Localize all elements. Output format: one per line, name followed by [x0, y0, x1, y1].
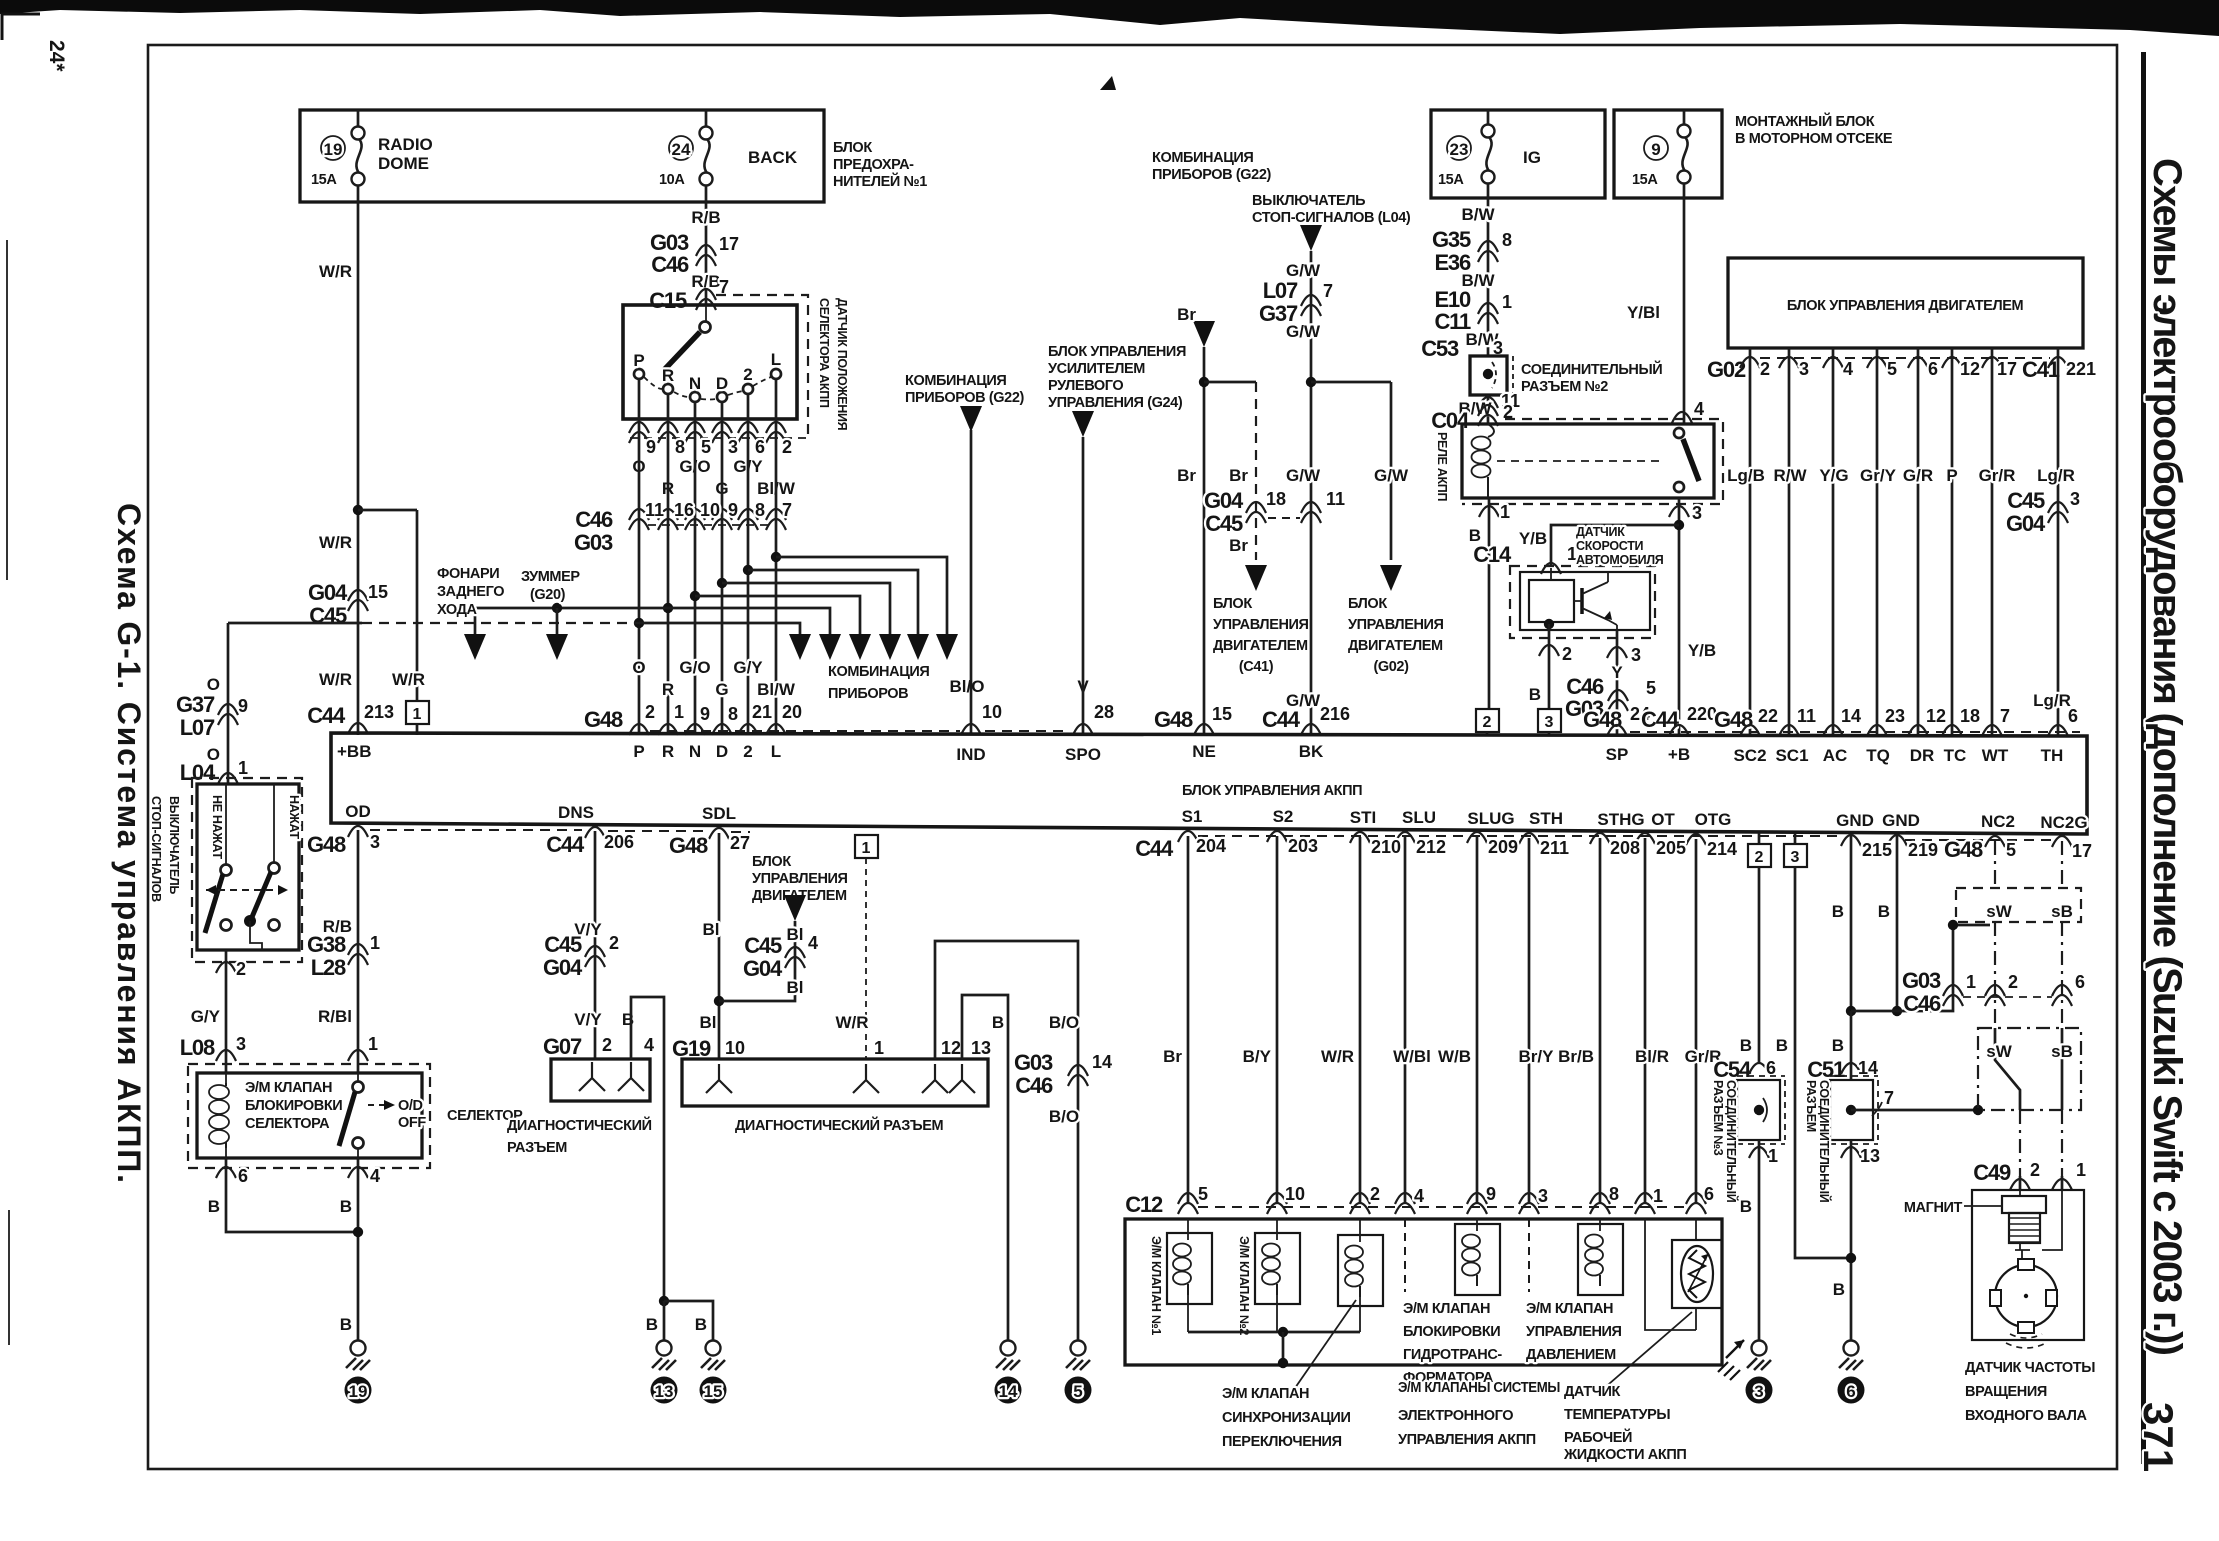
- svg-text:B: B: [1832, 902, 1844, 921]
- label selector position sensor: [817, 298, 849, 431]
- svg-text:OTG: OTG: [1695, 810, 1732, 829]
- svg-text:ПЕРЕКЛЮЧЕНИЯ: ПЕРЕКЛЮЧЕНИЯ: [1222, 1434, 1342, 1450]
- svg-text:8: 8: [728, 704, 738, 724]
- svg-text:210: 210: [1371, 837, 1401, 857]
- svg-text:11: 11: [645, 500, 664, 520]
- wire B GND215 to drain joint: [1832, 834, 1856, 1016]
- wire O from dashed line down to L04 switch: [207, 623, 228, 784]
- svg-text:213: 213: [364, 702, 394, 722]
- svg-text:C46: C46: [575, 507, 613, 532]
- solenoid valve 3 shift synchronization: [1338, 1219, 1383, 1332]
- svg-text:W/R: W/R: [1321, 1047, 1354, 1066]
- svg-text:Э/М КЛАПАН: Э/М КЛАПАН: [1403, 1301, 1490, 1317]
- svg-text:C45: C45: [2007, 488, 2045, 513]
- svg-text:1: 1: [1966, 972, 1976, 992]
- svg-text:NC2: NC2: [1981, 812, 2015, 831]
- box connector 2 below bus: [1748, 833, 1771, 867]
- svg-text:G37: G37: [176, 692, 215, 717]
- svg-text:O/D: O/D: [398, 1098, 423, 1114]
- svg-text:Э/М КЛАПАН: Э/М КЛАПАН: [1526, 1301, 1613, 1317]
- svg-text:W/B: W/B: [1438, 1047, 1471, 1066]
- svg-text:2: 2: [1760, 359, 1770, 379]
- svg-text:G04: G04: [743, 956, 783, 981]
- svg-text:B: B: [992, 1013, 1004, 1032]
- svg-text:IND: IND: [956, 745, 985, 764]
- box connector 2 above bus: [1476, 709, 1499, 736]
- junction dot B: [353, 1227, 363, 1237]
- svg-text:1: 1: [1653, 1186, 1663, 1206]
- svg-text:11: 11: [1326, 489, 1345, 509]
- svg-text:17: 17: [719, 234, 739, 254]
- svg-text:C44: C44: [546, 832, 585, 857]
- svg-text:Э/М КЛАПАН: Э/М КЛАПАН: [245, 1080, 332, 1096]
- svg-text:R/Bl: R/Bl: [318, 1007, 352, 1026]
- arrows to combination meter: [789, 634, 958, 660]
- svg-text:Схемы электрооборудования (доп: Схемы электрооборудования (дополнение (S…: [2145, 158, 2189, 1356]
- svg-text:DNS: DNS: [558, 803, 594, 822]
- wire V/Y DNS chain to G07 pin 2: [543, 831, 619, 1059]
- selector contacts P R N D 2 L: [633, 350, 781, 402]
- wire B/O G19 pin 12 to ground 5: [935, 941, 1112, 1340]
- wire stub fuse 19: [357, 110, 360, 202]
- svg-text:2: 2: [743, 742, 752, 761]
- joint connector C51: [1804, 1011, 1878, 1203]
- svg-text:B: B: [646, 1315, 658, 1334]
- svg-text:208: 208: [1610, 838, 1640, 858]
- connector G02/C41 row: [1707, 348, 2096, 736]
- svg-text:B: B: [340, 1315, 352, 1334]
- svg-text:C15: C15: [649, 288, 687, 313]
- svg-text:B: B: [1832, 1036, 1844, 1055]
- svg-text:15A: 15A: [311, 172, 337, 188]
- svg-text:6: 6: [1704, 1184, 1714, 1204]
- svg-text:СТОП-СИГНАЛОВ: СТОП-СИГНАЛОВ: [149, 796, 163, 902]
- svg-text:27: 27: [730, 833, 750, 853]
- junction W/R branch: [353, 505, 363, 515]
- svg-text:C44: C44: [1135, 836, 1174, 861]
- svg-text:STH: STH: [1529, 809, 1563, 828]
- wire W/R from fuse 19 down to C44-213: [319, 202, 358, 735]
- wire R/B OD chain: G48-3 down to L08 pin1: [307, 830, 380, 1073]
- svg-text:R/W: R/W: [1773, 466, 1807, 485]
- svg-text:8: 8: [1609, 1184, 1619, 1204]
- svg-text:G35: G35: [1432, 227, 1471, 252]
- svg-text:ПРИБОРОВ: ПРИБОРОВ: [828, 686, 908, 702]
- svg-text:204: 204: [1196, 836, 1226, 856]
- svg-text:R/B: R/B: [691, 208, 720, 227]
- svg-text:B: B: [695, 1315, 707, 1334]
- wire B/Y S2: [1243, 836, 1277, 1203]
- connector C12 row: [1125, 1184, 1714, 1217]
- chassis arrow at solenoid box corner: [1718, 1340, 1744, 1380]
- diagnostic connector 1 box G07: [551, 1059, 650, 1101]
- svg-text:W/R: W/R: [319, 670, 352, 689]
- svg-text:G04: G04: [2006, 511, 2046, 536]
- svg-text:10A: 10A: [659, 172, 685, 188]
- label combination meter: [828, 664, 929, 702]
- wire Br NE: [1177, 305, 1214, 735]
- svg-text:ДИАГНОСТИЧЕСКИЙ: ДИАГНОСТИЧЕСКИЙ: [507, 1116, 652, 1134]
- svg-text:6: 6: [1766, 1058, 1776, 1078]
- svg-text:Y: Y: [1611, 663, 1623, 682]
- relay pin 3 wire to +B: [1669, 498, 1716, 736]
- svg-text:10: 10: [725, 1038, 745, 1058]
- svg-text:TH: TH: [2041, 746, 2064, 765]
- junction NE to Br branch: [1199, 377, 1256, 387]
- wire color labels row lower: [632, 658, 1089, 699]
- label relay: [1435, 432, 1449, 501]
- svg-text:БЛОКИРОВКИ: БЛОКИРОВКИ: [1403, 1324, 1500, 1340]
- svg-text:17: 17: [2072, 841, 2092, 861]
- fuse 9 15A: [1632, 125, 1691, 189]
- svg-text:ПРЕДОХРА-: ПРЕДОХРА-: [833, 157, 914, 173]
- wire Bl/O IND: [961, 430, 1070, 735]
- svg-text:Br/B: Br/B: [1558, 1047, 1594, 1066]
- svg-text:W/R: W/R: [835, 1013, 868, 1032]
- fuse box 1: [300, 110, 824, 202]
- wire G/Y from L04 pin 2 to L08: [191, 950, 246, 1073]
- svg-text:ДАТЧИК: ДАТЧИК: [1564, 1384, 1621, 1400]
- svg-text:215: 215: [1862, 840, 1892, 860]
- svg-text:SDL: SDL: [702, 804, 736, 823]
- svg-text:G48: G48: [307, 832, 346, 857]
- svg-text:19: 19: [349, 1382, 368, 1401]
- arrow from stop lamp switch L04 to BK: [1252, 193, 1411, 251]
- svg-text:КОМБИНАЦИЯ: КОМБИНАЦИЯ: [905, 373, 1006, 389]
- svg-text:21: 21: [752, 702, 772, 722]
- svg-text:G04: G04: [1204, 488, 1244, 513]
- staircase line from D wire to arrow 4: [717, 578, 890, 634]
- scan artifact: corner bracket top-left: [2, 14, 40, 40]
- connector C45/G04 pin 3 on TH wire: [2006, 488, 2080, 536]
- label speed sensor: [1576, 525, 1664, 567]
- svg-text:5: 5: [1887, 359, 1897, 379]
- wire stub fuse 23: [1487, 110, 1490, 198]
- wire Bl SDL chain to G19 pin 10: [672, 833, 745, 1061]
- bus pins SC2..TH: [1630, 706, 2080, 736]
- svg-text:12: 12: [1960, 359, 1980, 379]
- svg-text:G48: G48: [1944, 837, 1983, 862]
- svg-text:РАЗЪЕМ: РАЗЪЕМ: [1804, 1080, 1818, 1132]
- svg-text:(G02): (G02): [1373, 659, 1409, 675]
- svg-text:2: 2: [1755, 849, 1764, 866]
- svg-text:12: 12: [1926, 706, 1946, 726]
- solenoid valve 4 TCC lockup: [1405, 1219, 1500, 1295]
- svg-text:G/Y: G/Y: [191, 1007, 221, 1026]
- svg-text:G48: G48: [584, 707, 623, 732]
- solenoid block box: [1125, 1219, 1722, 1365]
- svg-text:4: 4: [1694, 399, 1704, 419]
- wire B G19 pin 13 to ground 14: [941, 995, 1008, 1340]
- svg-text:209: 209: [1488, 837, 1518, 857]
- relay C04 dashed outline: [1462, 419, 1723, 504]
- stop signal switch L04: [149, 778, 302, 962]
- connector G04/C45 pin 15: [308, 580, 388, 628]
- connector C15 pins 9 8 5 3 6 2: [629, 422, 808, 457]
- svg-text:7: 7: [2000, 706, 2010, 726]
- svg-text:G04: G04: [543, 955, 583, 980]
- svg-text:24: 24: [672, 140, 691, 159]
- wire Bl from engine control to SDL junction: [719, 921, 818, 1001]
- svg-text:211: 211: [1540, 838, 1569, 858]
- solenoid valve 1: [1149, 1219, 1212, 1335]
- svg-text:Bl: Bl: [703, 920, 720, 939]
- svg-text:B/O: B/O: [1049, 1107, 1079, 1126]
- svg-text:Lg/R: Lg/R: [2033, 691, 2071, 710]
- arrow to reverse lamps: [437, 566, 504, 660]
- engine control unit box: [1728, 258, 2083, 348]
- svg-text:SLUG: SLUG: [1467, 809, 1514, 828]
- speed sensor pin 3 wire Y to SP: [1565, 630, 1656, 736]
- svg-text:2: 2: [645, 702, 655, 722]
- fuse 19 RADIO DOME 15A: [311, 127, 433, 189]
- svg-text:14: 14: [1841, 706, 1861, 726]
- wire Br branch to engine control C41: [1204, 382, 1300, 591]
- fuse box 2: [1431, 110, 1605, 198]
- wire B from box connector 3 to C51 bottom: [1776, 867, 1851, 1258]
- wire color labels row upper: [632, 457, 795, 498]
- speed sensor element: [1529, 568, 1574, 622]
- svg-text:371: 371: [2135, 1402, 2182, 1472]
- svg-text:15: 15: [368, 582, 388, 602]
- relay dashed link: [1497, 460, 1665, 462]
- label input shaft speed sensor: [1965, 1360, 2095, 1424]
- wire Y/Bl from fuse 9 to relay pin 4: [1627, 198, 1704, 424]
- svg-text:В МОТОРНОМ ОТСЕКЕ: В МОТОРНОМ ОТСЕКЕ: [1735, 131, 1893, 147]
- svg-text:(G20): (G20): [530, 587, 566, 603]
- svg-text:Y/B: Y/B: [1519, 529, 1547, 548]
- wire B from pin6 to junction: [226, 1158, 358, 1232]
- svg-text:1: 1: [370, 933, 380, 953]
- svg-text:5: 5: [2006, 840, 2016, 860]
- svg-text:РАЗЪЕМ №3: РАЗЪЕМ №3: [1711, 1080, 1725, 1156]
- svg-text:РАЗЪЕМ №2: РАЗЪЕМ №2: [1521, 379, 1608, 395]
- svg-text:Y/B: Y/B: [1688, 641, 1716, 660]
- svg-text:11: 11: [1797, 706, 1816, 726]
- svg-text:G48: G48: [669, 833, 708, 858]
- svg-text:C44: C44: [1262, 707, 1301, 732]
- svg-text:Br: Br: [1177, 466, 1196, 485]
- bus pin labels NE BK: [1154, 704, 1350, 732]
- svg-text:НИТЕЛЕЙ №1: НИТЕЛЕЙ №1: [833, 172, 927, 190]
- svg-text:TQ: TQ: [1866, 746, 1890, 765]
- svg-text:219: 219: [1908, 840, 1938, 860]
- input shaft speed sensor C49: [1972, 1160, 2086, 1348]
- svg-text:ДВИГАТЕЛЕМ: ДВИГАТЕЛЕМ: [1348, 638, 1443, 654]
- svg-text:ЭЛЕКТРОННОГО: ЭЛЕКТРОННОГО: [1398, 1408, 1513, 1424]
- svg-text:ЖИДКОСТИ АКПП: ЖИДКОСТИ АКПП: [1563, 1447, 1686, 1463]
- svg-text:4: 4: [1414, 1186, 1424, 1206]
- svg-text:C14: C14: [1473, 542, 1512, 567]
- svg-text:БЛОК УПРАВЛЕНИЯ АКПП: БЛОК УПРАВЛЕНИЯ АКПП: [1182, 783, 1362, 799]
- svg-text:БЛОК УПРАВЛЕНИЯ: БЛОК УПРАВЛЕНИЯ: [1048, 344, 1186, 360]
- svg-text:1: 1: [2076, 1160, 2086, 1180]
- svg-text:206: 206: [604, 832, 634, 852]
- staircase line from 2 wire to arrow 5: [743, 565, 918, 634]
- svg-text:Bl: Bl: [700, 1013, 717, 1032]
- selector position sensor dashed outline: [716, 295, 808, 434]
- connector C46/G03 row: [574, 500, 792, 555]
- svg-text:18: 18: [1266, 489, 1286, 509]
- svg-text:G19: G19: [672, 1036, 711, 1061]
- svg-text:НАЖАТ: НАЖАТ: [287, 795, 301, 840]
- svg-text:КОМБИНАЦИЯ: КОМБИНАЦИЯ: [1152, 150, 1253, 166]
- box connector 3 below bus: [1784, 833, 1807, 867]
- svg-text:8: 8: [1502, 230, 1512, 250]
- svg-text:Y/Bl: Y/Bl: [1627, 303, 1660, 322]
- svg-text:C46: C46: [1903, 991, 1941, 1016]
- box connector 3 above bus: [1538, 709, 1561, 736]
- svg-text:B: B: [1776, 1036, 1788, 1055]
- svg-text:9: 9: [646, 437, 656, 457]
- svg-text:УПРАВЛЕНИЯ: УПРАВЛЕНИЯ: [1526, 1324, 1622, 1340]
- arrow from combination meter G22 to NE: [1152, 150, 1272, 347]
- svg-text:1: 1: [238, 758, 248, 778]
- svg-text:BACK: BACK: [748, 148, 798, 167]
- svg-text:sW: sW: [1986, 902, 2012, 921]
- svg-text:1: 1: [1500, 502, 1510, 522]
- svg-text:МОНТАЖНЫЙ БЛОК: МОНТАЖНЫЙ БЛОК: [1735, 112, 1875, 130]
- bus row 2 connector chevrons: [348, 826, 2072, 847]
- svg-text:4: 4: [1843, 359, 1853, 379]
- ground 14: [995, 1341, 1022, 1404]
- svg-text:2: 2: [782, 437, 792, 457]
- svg-text:БЛОК: БЛОК: [833, 140, 872, 156]
- svg-text:6: 6: [2068, 706, 2078, 726]
- svg-text:ДАТЧИК ЧАСТОТЫ: ДАТЧИК ЧАСТОТЫ: [1965, 1360, 2095, 1376]
- svg-text:УПРАВЛЕНИЯ: УПРАВЛЕНИЯ: [1348, 617, 1444, 633]
- svg-text:13: 13: [971, 1038, 991, 1058]
- svg-text:СКОРОСТИ: СКОРОСТИ: [1576, 539, 1644, 553]
- svg-text:3: 3: [1538, 1186, 1548, 1206]
- svg-text:G07: G07: [543, 1034, 582, 1059]
- svg-text:G/R: G/R: [1903, 466, 1933, 485]
- label engine control C41: [1213, 596, 1309, 675]
- svg-text:W/Bl: W/Bl: [1393, 1047, 1431, 1066]
- svg-text:G03: G03: [574, 530, 613, 555]
- svg-text:B: B: [208, 1197, 220, 1216]
- svg-text:C04: C04: [1431, 408, 1470, 433]
- svg-text:G03: G03: [1014, 1050, 1053, 1075]
- svg-text:БЛОК УПРАВЛЕНИЯ ДВИГАТЕЛЕМ: БЛОК УПРАВЛЕНИЯ ДВИГАТЕЛЕМ: [1787, 298, 2024, 314]
- svg-text:(C41): (C41): [1239, 659, 1274, 675]
- scan artifact: top black bar: [0, 0, 2219, 36]
- connector G48 row P..L: [584, 702, 960, 735]
- diagnostic connector 2 box G19: [682, 1059, 988, 1106]
- svg-text:Br/Y: Br/Y: [1519, 1047, 1555, 1066]
- wire G/W BK: [1259, 251, 1345, 735]
- AT control unit box: [331, 733, 2087, 834]
- svg-text:G/W: G/W: [1286, 466, 1321, 485]
- bus row 1 pin names: [337, 742, 2063, 765]
- svg-text:L07: L07: [180, 715, 215, 740]
- svg-text:10: 10: [1285, 1184, 1305, 1204]
- shield box sW sB lower: [1978, 1028, 2081, 1110]
- selector position sensor box C15: [623, 305, 797, 419]
- wire B from C54 to ground 3: [1740, 1140, 1778, 1340]
- svg-text:sB: sB: [2051, 1042, 2073, 1061]
- svg-text:9: 9: [1486, 1184, 1496, 1204]
- svg-text:D: D: [716, 742, 728, 761]
- O/D solenoid + selector switch L08: [188, 1064, 430, 1168]
- svg-text:G48: G48: [1583, 707, 1622, 732]
- svg-text:B: B: [1740, 1197, 1752, 1216]
- fuse box 3: [1614, 110, 1722, 198]
- speed sensor pin 2 to box connector 3: [1529, 619, 1572, 709]
- svg-text:D: D: [716, 374, 728, 393]
- svg-text:C45: C45: [1205, 511, 1243, 536]
- svg-text:C54: C54: [1713, 1057, 1752, 1082]
- svg-text:ДАТЧИК ПОЛОЖЕНИЯ: ДАТЧИК ПОЛОЖЕНИЯ: [835, 298, 849, 431]
- svg-text:8: 8: [675, 437, 685, 457]
- svg-text:2: 2: [1370, 1184, 1380, 1204]
- svg-text:БЛОК: БЛОК: [752, 854, 791, 870]
- svg-text:3: 3: [2070, 489, 2080, 509]
- ground 5: [1065, 1341, 1092, 1404]
- svg-text:B/Y: B/Y: [1243, 1047, 1272, 1066]
- svg-text:КОМБИНАЦИЯ: КОМБИНАЦИЯ: [828, 664, 929, 680]
- svg-text:B: B: [1740, 1036, 1752, 1055]
- svg-text:1: 1: [1768, 1146, 1778, 1166]
- speed sensor dashed outline: [1510, 566, 1655, 638]
- relay C04 box: [1462, 424, 1714, 498]
- wire stub fuse 9: [1683, 110, 1686, 198]
- scan artifact: black nub: [1100, 76, 1116, 90]
- svg-text:OT: OT: [1651, 810, 1675, 829]
- svg-text:5: 5: [1646, 678, 1656, 698]
- svg-text:3: 3: [1692, 503, 1702, 523]
- svg-text:ФОНАРИ: ФОНАРИ: [437, 566, 499, 582]
- connector G37/L07 pin 9: [176, 692, 248, 740]
- svg-text:14: 14: [1092, 1052, 1112, 1072]
- svg-text:ГИДРОТРАНС-: ГИДРОТРАНС-: [1403, 1347, 1502, 1363]
- svg-text:РАЗЪЕМ: РАЗЪЕМ: [507, 1140, 567, 1156]
- svg-text:3: 3: [1791, 849, 1800, 866]
- svg-text:C53: C53: [1421, 336, 1459, 361]
- wire sB NC2G: [2061, 841, 2063, 1190]
- ground 19: [345, 1341, 372, 1404]
- svg-text:УПРАВЛЕНИЯ АКПП: УПРАВЛЕНИЯ АКПП: [1398, 1432, 1536, 1448]
- svg-text:ЗУММЕР: ЗУММЕР: [521, 569, 580, 585]
- svg-text:2: 2: [236, 959, 246, 979]
- svg-text:GND: GND: [1882, 811, 1920, 830]
- arrow from combination meter G22 to IND: [905, 373, 1025, 432]
- relay pin 1 wire B to box connector 2: [1469, 498, 1510, 709]
- svg-text:SP: SP: [1606, 745, 1629, 764]
- svg-text:203: 203: [1288, 836, 1318, 856]
- label solenoid 5: [1526, 1301, 1622, 1363]
- wire to speed sensor C14 pin 1: [1473, 525, 1679, 574]
- svg-text:214: 214: [1707, 839, 1737, 859]
- svg-text:СИНХРОНИЗАЦИИ: СИНХРОНИЗАЦИИ: [1222, 1410, 1350, 1426]
- wire 7 from C51 to shield: [1851, 1088, 1983, 1116]
- wire B from pin4 to ground 19: [357, 1158, 360, 1340]
- arrow from power steering control G24 to SPO: [1048, 344, 1186, 437]
- svg-text:Br: Br: [1229, 536, 1248, 555]
- svg-text:Э/М КЛАПАН №2: Э/М КЛАПАН №2: [1237, 1236, 1251, 1335]
- label mounting block: [1735, 112, 1893, 147]
- svg-text:5: 5: [1198, 1184, 1208, 1204]
- svg-text:G03: G03: [1902, 968, 1941, 993]
- svg-text:C44: C44: [307, 703, 346, 728]
- svg-text:ЗАДНЕГО: ЗАДНЕГО: [437, 584, 504, 600]
- connector L04 pin 1: [180, 758, 248, 785]
- svg-text:БЛОКИРОВКИ: БЛОКИРОВКИ: [245, 1098, 342, 1114]
- junction connector 2 C53: [1470, 356, 1513, 395]
- svg-text:РАБОЧЕЙ: РАБОЧЕЙ: [1564, 1428, 1632, 1446]
- wire B/W from C53 to relay C04: [1431, 391, 1520, 433]
- svg-text:W/R: W/R: [319, 533, 352, 552]
